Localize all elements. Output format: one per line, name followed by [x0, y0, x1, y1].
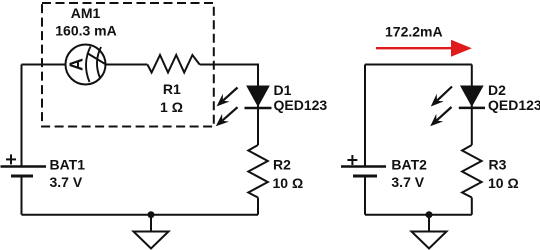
svg-text:3.7 V: 3.7 V [391, 174, 424, 190]
wire: right circuit left side below battery [364, 176, 366, 215]
resistor R1 (horizontal zigzag) [147, 55, 199, 73]
ground stub wire (right) [428, 215, 430, 232]
LED D1 emission arrow 2 [216, 107, 238, 126]
resistor R3 (vertical zigzag) [462, 145, 482, 198]
svg-text:QED123: QED123 [488, 97, 540, 113]
svg-text:R1: R1 [163, 81, 181, 97]
wire: left circuit top-left segment [22, 64, 66, 66]
ammeter AM1 [66, 45, 107, 85]
svg-text:R3: R3 [489, 157, 507, 173]
LED D2 (diode triangle) [461, 86, 483, 106]
LED D2 cathode bar [459, 107, 485, 110]
wire: left circuit left side below battery [21, 176, 23, 215]
dashed measurement box around AM1 [42, 3, 214, 127]
LED D2 emission arrow 2 [430, 107, 451, 126]
wire: ammeter to R1 [106, 64, 148, 66]
svg-text:160.3 mA: 160.3 mA [55, 23, 116, 39]
svg-text:BAT2: BAT2 [391, 157, 427, 173]
ground symbol (right circuit) [412, 232, 447, 249]
svg-text:BAT1: BAT1 [50, 157, 86, 173]
wire: left circuit bottom [22, 214, 259, 216]
wire: R1 to top-right corner, down to LED D1 [200, 65, 258, 146]
svg-text:R2: R2 [273, 157, 291, 173]
wire: R2 to bottom-right corner of left circuit [257, 198, 259, 215]
LED D2 emission arrow 1 [431, 87, 452, 107]
svg-text:QED123: QED123 [274, 97, 328, 113]
ground symbol (left circuit) [134, 232, 169, 249]
ground node junction dot (right circuit) [426, 211, 433, 218]
LED D1 cathode bar [245, 107, 272, 110]
ground stub wire (left) [150, 215, 152, 232]
LED D1 (diode triangle) [247, 86, 269, 106]
svg-text:D1: D1 [274, 82, 292, 98]
svg-text:3.7 V: 3.7 V [50, 174, 83, 190]
svg-text:AM1: AM1 [71, 5, 101, 21]
ground node junction dot (left circuit) [148, 211, 155, 218]
resistor R2 (vertical zigzag) [248, 145, 267, 198]
svg-text:1 Ω: 1 Ω [160, 99, 183, 115]
plus sign BAT2 [347, 155, 357, 165]
LED D1 emission arrow 1 [217, 88, 238, 107]
current arrow (red) [376, 40, 472, 57]
battery BAT2 [341, 167, 386, 177]
wire: right circuit right side down to R3 [471, 65, 473, 146]
svg-text:172.2mA: 172.2mA [385, 23, 443, 39]
wire: right circuit left side above battery [364, 65, 366, 167]
plus sign BAT1 [6, 154, 16, 164]
wire: left circuit left side above battery [21, 65, 23, 167]
svg-text:A: A [67, 58, 87, 71]
wire: right circuit top [365, 64, 472, 66]
battery BAT1 [1, 167, 47, 177]
svg-text:10 Ω: 10 Ω [488, 175, 519, 191]
svg-text:10 Ω: 10 Ω [273, 175, 304, 191]
wire: R3 to bottom-right corner [471, 198, 473, 215]
svg-text:D2: D2 [488, 82, 506, 98]
wire: right circuit bottom [365, 214, 472, 216]
